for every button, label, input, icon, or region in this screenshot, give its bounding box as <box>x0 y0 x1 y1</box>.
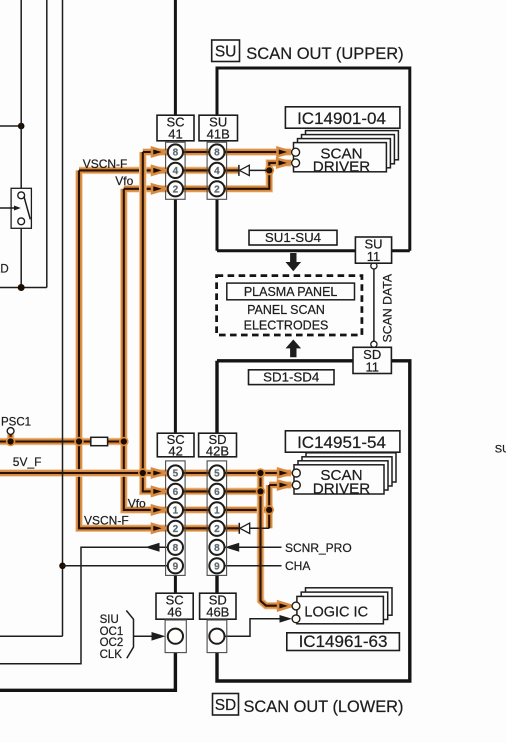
SC42 pin 2 <box>168 521 183 536</box>
plasma panel dashed box <box>217 276 362 335</box>
wire 5V_F orange bus (vertical x=142.8, upper pin8 row, lower pin5/pin6 rows, feed to logic) <box>0 152 291 606</box>
SD42B pin 2 <box>209 521 224 536</box>
SCAN DRIVER stack (lower) <box>294 453 396 498</box>
SD42B label box <box>199 433 237 457</box>
arrow into driver U1 pin1 <box>278 148 292 157</box>
svg-text:5: 5 <box>214 469 220 480</box>
junction logic riser / pin6 <box>256 487 266 497</box>
wire brace to SC46 <box>134 635 154 637</box>
svg-text:11: 11 <box>365 359 379 374</box>
SC42 connector body <box>166 461 186 576</box>
svg-text:SCAN DATA: SCAN DATA <box>381 273 395 342</box>
SD42B pin 8 <box>209 540 224 555</box>
SC board bottom corner <box>0 653 175 691</box>
PSC1 terminal circle <box>7 428 14 435</box>
SC46 connector body <box>165 620 186 653</box>
wire SCNR_PRO left branch (SC42 pin8) <box>0 547 168 664</box>
svg-text:1: 1 <box>214 506 220 517</box>
svg-text:41B: 41B <box>207 127 230 142</box>
SC42 pin 1 <box>168 502 183 517</box>
svg-text:IC14901-04: IC14901-04 <box>297 109 386 128</box>
junction 5V_F / pin8 riser <box>138 468 148 478</box>
svg-text:SU: SU <box>495 444 506 456</box>
SD board box (SCAN OUT LOWER) <box>217 361 410 681</box>
svg-text:9: 9 <box>173 562 179 573</box>
SC board main line (top) <box>174 0 177 115</box>
IC14961-63 box <box>287 633 400 651</box>
svg-text:PLASMA PANEL: PLASMA PANEL <box>244 285 338 299</box>
svg-text:SCAN OUT (UPPER): SCAN OUT (UPPER) <box>246 45 403 63</box>
svg-text:Vfo: Vfo <box>128 496 146 510</box>
svg-text:SCAN OUT (LOWER): SCAN OUT (LOWER) <box>244 698 404 716</box>
SD title box <box>213 694 239 716</box>
svg-text:2: 2 <box>173 524 179 535</box>
svg-text:OC1: OC1 <box>100 626 124 638</box>
wire SD46B to LOGIC IC <box>225 619 285 636</box>
svg-text:46: 46 <box>167 605 181 620</box>
svg-text:IC14961-63: IC14961-63 <box>299 632 388 651</box>
svg-text:5: 5 <box>173 469 179 480</box>
svg-text:SCNR_PRO: SCNR_PRO <box>285 541 352 555</box>
SCAN DRIVER stack (upper) <box>294 131 399 176</box>
wire diode D2 to corner <box>250 527 270 529</box>
svg-text:42B: 42B <box>206 443 229 458</box>
svg-text:SD: SD <box>215 697 237 714</box>
svg-text:42: 42 <box>168 443 182 458</box>
svg-text:SU1-SU4: SU1-SU4 <box>265 230 321 245</box>
svg-text:8: 8 <box>214 543 220 554</box>
junction PSC1 terminal <box>6 437 16 447</box>
SC42 label box <box>157 433 194 457</box>
svg-text:SD1-SD4: SD1-SD4 <box>263 369 319 384</box>
SU board box (SCAN OUT UPPER) <box>217 68 410 251</box>
wire CHA left branch (SC42 pin9) <box>63 565 168 567</box>
junction PSC1 / Vfo riser <box>119 437 129 447</box>
svg-text:OC2: OC2 <box>100 637 124 649</box>
junction upper diode node <box>265 166 275 176</box>
block arrow up (lower box to panel) <box>286 340 302 358</box>
SD42B pin 5 <box>209 465 224 480</box>
SC41 label box <box>157 115 194 141</box>
SC board line between SC41 and SC42 <box>174 199 177 433</box>
SU41B connector body <box>207 142 227 199</box>
IC14951-54 box <box>285 431 400 452</box>
arrow into logic U3 pin1 <box>278 602 292 611</box>
wire long left vertical 3 <box>0 0 63 636</box>
svg-text:Vfo: Vfo <box>115 174 133 188</box>
wire SU11-SD11 scan data <box>373 269 375 341</box>
svg-text:VSCN-F: VSCN-F <box>84 513 129 527</box>
svg-text:46B: 46B <box>206 605 229 620</box>
SD42B connector body <box>207 461 227 576</box>
wire CHA right <box>225 565 282 567</box>
svg-text:6: 6 <box>214 487 220 498</box>
svg-text:VSCN-F: VSCN-F <box>83 157 128 171</box>
svg-text:6: 6 <box>173 487 179 498</box>
arrows into SC42 pins <box>152 469 166 478</box>
node circle above SD11 <box>371 341 377 347</box>
IC14901-04 box <box>285 107 400 128</box>
SD42B pin 9 <box>209 558 224 573</box>
svg-text:LD: LD <box>0 263 9 275</box>
svg-text:PSC1: PSC1 <box>1 416 31 428</box>
svg-text:CLK: CLK <box>100 649 123 661</box>
SD11 box <box>353 347 391 373</box>
SC42 pin 5 <box>168 465 183 480</box>
SC41 pin 2 <box>168 181 183 196</box>
SC42 pin 6 <box>168 484 183 499</box>
SC42 pin 9 <box>168 558 183 573</box>
wire SCNR_PRO right <box>225 546 282 548</box>
SIU/OC1/OC2/CLK brace <box>126 611 133 659</box>
SU11 box <box>355 237 391 263</box>
SU1-SU4 box <box>249 230 337 245</box>
svg-text:8: 8 <box>173 543 179 554</box>
SC board line between SC42 and SC46 <box>174 575 177 593</box>
SD42B pin 6 <box>209 484 224 499</box>
svg-text:8: 8 <box>173 148 179 159</box>
SC41 connector body <box>166 142 186 199</box>
SD1-SD4 box <box>249 370 335 385</box>
arrow into driver U1 pin2 <box>277 159 291 168</box>
SC46 label box <box>156 593 193 619</box>
SD42B pin 1 <box>209 502 224 517</box>
wire switch actuate arrow <box>0 207 16 209</box>
node circle below SU11 <box>371 263 377 269</box>
svg-text:5V_F: 5V_F <box>13 455 42 469</box>
logic U3 pin2 circle <box>292 615 300 623</box>
logic U3 pin1 circle <box>292 602 300 610</box>
svg-text:8: 8 <box>214 148 220 159</box>
diode D1 (upper) <box>238 165 240 176</box>
svg-text:IC14951-54: IC14951-54 <box>297 433 386 452</box>
junction Vfo riser / lower pin1 <box>264 505 274 515</box>
SC42 pin 8 <box>168 540 183 555</box>
arrow into SD42B pin8 <box>225 543 240 552</box>
svg-text:1: 1 <box>173 506 179 517</box>
svg-text:9: 9 <box>214 562 220 573</box>
SU41B pin 2 <box>209 181 224 196</box>
driver U1 pin1 circle <box>292 148 300 156</box>
junction dot A <box>18 123 25 130</box>
svg-text:4: 4 <box>214 166 220 177</box>
arrow into LOGIC IC pin2 <box>280 615 293 623</box>
junction logic riser / pin5 <box>256 468 266 478</box>
svg-text:11: 11 <box>367 249 381 264</box>
wire bottom hline of relay loop <box>0 287 47 289</box>
driver U1 pin2 circle <box>292 159 300 167</box>
SC46 contact circle <box>168 629 183 644</box>
PLASMA PANEL box <box>227 283 355 300</box>
svg-text:4: 4 <box>173 166 179 177</box>
SU title box <box>212 40 240 62</box>
driver U2 pin2 circle <box>292 481 300 489</box>
wire PSC1 orange net with resistor R <box>0 434 124 441</box>
svg-text:2: 2 <box>214 524 220 535</box>
SU41B label box <box>199 115 238 141</box>
svg-text:DRIVER: DRIVER <box>313 480 370 497</box>
svg-text:2: 2 <box>214 185 220 196</box>
svg-text:SIU: SIU <box>100 614 119 626</box>
svg-text:LOGIC IC: LOGIC IC <box>304 605 368 621</box>
SC41 pin 4 <box>168 163 183 178</box>
svg-text:2: 2 <box>173 185 179 196</box>
SD46B contact circle <box>209 629 224 644</box>
svg-text:SU: SU <box>215 43 237 60</box>
svg-text:PANEL SCAN: PANEL SCAN <box>247 303 325 317</box>
SU41B pin 8 <box>209 144 224 159</box>
wire Vfo orange bus (vertical x=123.8, upper pin2 row, lower pin1 row) <box>124 163 291 528</box>
arrow into driver U2 pin1 <box>278 469 292 478</box>
arrow into driver U2 pin2 <box>278 481 292 490</box>
arrow left mid-wire <box>145 543 160 552</box>
diode D2 (lower) <box>238 523 240 534</box>
SD46B label box <box>200 593 236 619</box>
wire left vertical 1 <box>20 0 22 288</box>
svg-text:ELECTRODES: ELECTRODES <box>244 319 329 333</box>
LOGIC IC stack <box>297 588 392 624</box>
junction PSC1 / VSCN-F riser <box>74 437 84 447</box>
SC41 pin 8 <box>168 144 183 159</box>
block arrow down (upper box to panel) <box>286 253 302 271</box>
driver U2 pin1 circle <box>292 469 300 477</box>
SD46B connector body <box>207 620 227 653</box>
arrows into SC41 pins <box>152 148 166 157</box>
svg-text:41: 41 <box>168 127 182 142</box>
arrow into SC46 <box>152 632 166 641</box>
wire left vertical 2 <box>46 0 48 288</box>
SU41B pin 4 <box>209 163 224 178</box>
wire diode D1 to node <box>249 169 269 171</box>
wire node-A hline to left vertical <box>0 125 21 127</box>
resistor R1 <box>91 437 108 445</box>
svg-text:CHA: CHA <box>285 559 310 573</box>
switch S1 <box>11 188 31 228</box>
wire VSCN-F orange bus (vertical x=79, upper pin4 row, lower pin2 row) <box>79 170 239 528</box>
junction dot B <box>18 284 25 291</box>
svg-text:DRIVER: DRIVER <box>313 158 370 175</box>
junction dot pin9 net <box>59 563 66 570</box>
